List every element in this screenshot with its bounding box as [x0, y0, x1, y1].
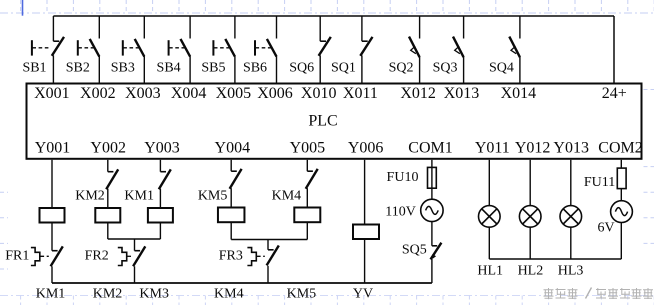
- svg-text:Y006: Y006: [348, 140, 384, 157]
- svg-text:110V: 110V: [385, 205, 416, 220]
- svg-text:X004: X004: [171, 85, 207, 102]
- svg-text:KM2: KM2: [75, 189, 105, 204]
- svg-text:Y002: Y002: [90, 140, 126, 157]
- svg-text:X012: X012: [400, 85, 436, 102]
- svg-text:Y013: Y013: [553, 140, 589, 157]
- svg-text:24+: 24+: [602, 85, 627, 102]
- svg-text:KM4: KM4: [272, 188, 302, 203]
- svg-text:Y004: Y004: [215, 140, 251, 157]
- svg-text:SB3: SB3: [111, 61, 135, 76]
- svg-text:KM3: KM3: [139, 287, 169, 302]
- svg-text:HL1: HL1: [477, 263, 503, 278]
- svg-text:SB6: SB6: [243, 61, 267, 76]
- svg-text:KM1: KM1: [124, 189, 154, 204]
- svg-text:KM5: KM5: [198, 188, 228, 203]
- svg-text:X013: X013: [444, 85, 480, 102]
- svg-text:SB5: SB5: [201, 61, 225, 76]
- svg-text:Y012: Y012: [515, 140, 551, 157]
- svg-text:SQ5: SQ5: [402, 243, 427, 258]
- svg-text:FR2: FR2: [85, 249, 109, 264]
- svg-text:Y005: Y005: [290, 140, 326, 157]
- svg-text:SQ3: SQ3: [433, 61, 458, 76]
- svg-text:SB4: SB4: [157, 61, 181, 76]
- svg-text:SQ6: SQ6: [289, 61, 314, 76]
- svg-text:HL2: HL2: [518, 263, 544, 278]
- svg-text:KM4: KM4: [214, 287, 244, 302]
- svg-text:X001: X001: [34, 85, 70, 102]
- svg-text:COM1: COM1: [408, 140, 452, 157]
- svg-text:X014: X014: [501, 85, 537, 102]
- svg-text:SB2: SB2: [66, 61, 90, 76]
- svg-text:KM5: KM5: [287, 287, 317, 302]
- svg-text:COM2: COM2: [598, 140, 642, 157]
- svg-text:KM2: KM2: [93, 287, 123, 302]
- svg-text:X003: X003: [125, 85, 161, 102]
- svg-text:SQ4: SQ4: [489, 61, 514, 76]
- svg-text:PLC: PLC: [308, 113, 337, 130]
- svg-text:X005: X005: [216, 85, 252, 102]
- svg-text:HL3: HL3: [558, 263, 584, 278]
- svg-text:FR3: FR3: [219, 249, 243, 264]
- svg-text:FU10: FU10: [387, 170, 419, 185]
- svg-text:X011: X011: [343, 85, 378, 102]
- svg-text:SQ1: SQ1: [331, 61, 356, 76]
- svg-text:YV: YV: [353, 287, 373, 302]
- svg-text:SB1: SB1: [22, 61, 46, 76]
- svg-text:6V: 6V: [597, 221, 614, 236]
- svg-text:KM1: KM1: [36, 287, 66, 302]
- svg-text:X010: X010: [301, 85, 337, 102]
- svg-text:FR1: FR1: [5, 249, 29, 264]
- svg-text:FU11: FU11: [584, 175, 615, 190]
- svg-text:X006: X006: [257, 85, 293, 102]
- svg-text:X002: X002: [80, 85, 116, 102]
- svg-text:Y001: Y001: [35, 140, 71, 157]
- svg-text:Y003: Y003: [144, 140, 180, 157]
- svg-text:SQ2: SQ2: [389, 61, 414, 76]
- svg-text:Y011: Y011: [475, 140, 510, 157]
